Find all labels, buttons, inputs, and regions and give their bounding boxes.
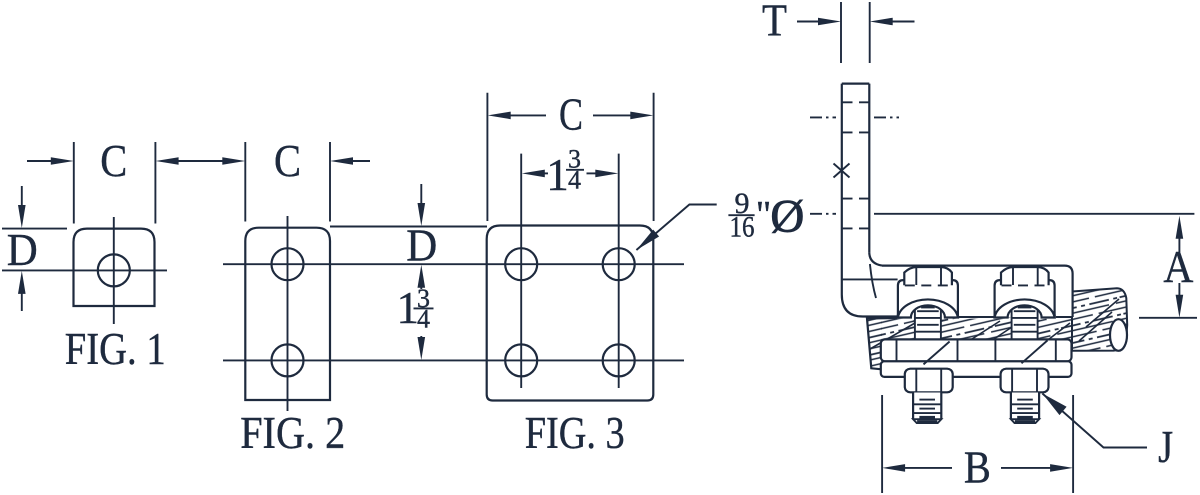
dimension C fig1 extension lines xyxy=(73,142,75,224)
dimension T extension lines xyxy=(840,2,842,63)
svg-text:FIG. 1: FIG. 1 xyxy=(65,324,166,374)
svg-text:C: C xyxy=(100,136,127,186)
J callout leader xyxy=(1042,394,1147,448)
fig3 hole bottom-right xyxy=(603,344,635,376)
saddle strap arch (clamp 2) xyxy=(994,297,1054,317)
conductor cable hatched body (left stub) xyxy=(867,318,882,369)
upper stud through cable (clamp 2) xyxy=(1012,304,1038,340)
dimension C fig3 left arrow xyxy=(488,112,511,120)
fig3 hole bottom-left xyxy=(505,344,537,376)
fig1 hole horizontal centerline / D extension xyxy=(2,269,167,271)
fig2 plate xyxy=(245,228,330,400)
upper hole row centerline across fig2 and fig3 xyxy=(223,263,684,265)
saddle block (clamp 2) xyxy=(995,280,1055,317)
fig1 hole vertical centerline xyxy=(113,217,115,324)
conductor cable hatched body (right end) xyxy=(1072,288,1127,351)
hex bolt head (clamp 1) xyxy=(904,267,952,285)
fig3 hole top-left xyxy=(505,248,537,280)
stud chamfered tip (clamp 1) xyxy=(913,419,941,423)
stud chamfered tip (clamp 2) xyxy=(1011,419,1039,423)
dimension A top arrow xyxy=(1176,216,1184,239)
dimension B extension lines xyxy=(881,395,883,493)
svg-text:D: D xyxy=(406,221,437,271)
bracket bend tangent edge xyxy=(870,264,876,298)
L-bracket leg outer edge xyxy=(841,84,843,295)
hex bolt head (clamp 2) xyxy=(1001,267,1049,285)
dimension 1-3-4 fig3 left arrow xyxy=(522,170,545,178)
diagonal slash right xyxy=(1022,340,1048,363)
svg-text:4: 4 xyxy=(568,166,581,195)
top edge extension between fig2 and fig3 xyxy=(330,226,487,228)
leg hidden hole 2 lower dashed edge xyxy=(843,227,870,229)
L-bracket leg top cap xyxy=(842,82,870,84)
dimension C fig2 right arrow xyxy=(330,157,353,165)
leg hole 1 centerline right xyxy=(874,116,899,118)
cable left end outline xyxy=(867,318,897,369)
svg-text:1: 1 xyxy=(546,150,569,200)
cable end face ellipse xyxy=(1110,319,1127,351)
bracket outer fillet and foot xyxy=(842,295,898,317)
fig3 left column centerline xyxy=(520,154,522,388)
hidden seat dashes under head (clamp 1) xyxy=(905,284,952,286)
svg-text:J: J xyxy=(1158,422,1173,472)
dimension A bottom reference line xyxy=(1139,317,1197,319)
dimension A bottom arrow xyxy=(1178,283,1180,297)
dimension 1-3-4 fig3 right arrow xyxy=(587,172,597,174)
clamp body top surface xyxy=(882,266,1073,317)
svg-text:16: 16 xyxy=(730,210,755,243)
fig3 plate xyxy=(487,226,654,401)
leg hidden hole 1 lower dashed edge xyxy=(843,131,870,133)
leg hole 1 centerline left xyxy=(810,116,836,118)
threaded stud (clamp 1) xyxy=(913,393,941,420)
keeper plate section lines xyxy=(896,339,898,361)
dimension C fig3 right arrow xyxy=(593,114,631,116)
cable strand bulge under right saddle arch xyxy=(1008,305,1040,328)
leg hidden hole 1 upper dashed edge xyxy=(843,101,870,103)
1-3-4 bottom arrow xyxy=(420,336,422,340)
dimension D fig2/fig3 upper arrow xyxy=(420,184,422,207)
upper stud through cable (clamp 1) xyxy=(915,304,941,340)
hidden seat dashes under head (clamp 2) xyxy=(1002,284,1049,286)
hole diameter callout leader xyxy=(636,205,716,251)
dimension T right arrow xyxy=(870,18,893,26)
fig3 hole top-right xyxy=(603,248,635,280)
svg-text:D: D xyxy=(7,225,38,275)
dimension D fig1 upper arrow xyxy=(21,186,23,207)
svg-text:C: C xyxy=(274,136,301,186)
hole 2 centerline extended right (A reference) xyxy=(874,213,1194,215)
svg-text:B: B xyxy=(964,443,991,493)
bracket inner fillet xyxy=(869,253,882,266)
fig2 vertical centerline xyxy=(287,216,289,411)
fig1 plate xyxy=(74,229,155,306)
cable strand bulge under left saddle arch xyxy=(912,305,944,328)
break mark x on leg xyxy=(834,164,850,178)
dimension C fig1/fig2 shared double arrow xyxy=(177,160,225,162)
fig1 hole xyxy=(98,254,130,286)
svg-text:C: C xyxy=(559,90,583,140)
svg-text:4: 4 xyxy=(417,305,430,334)
svg-text:": " xyxy=(756,194,772,236)
cable strand accent lines xyxy=(870,299,1119,351)
leg hole 2 centerline left xyxy=(810,213,836,215)
dimension D lower arrow / 1-3-4 top arrow xyxy=(418,265,426,288)
svg-text:Ø: Ø xyxy=(770,190,804,242)
dimension C fig2 extension lines xyxy=(244,142,246,222)
L-bracket body fill xyxy=(842,84,898,317)
saddle strap arch (clamp 1) xyxy=(898,297,958,317)
L-bracket horizontal bar fill xyxy=(869,266,1073,317)
svg-text:FIG. 2: FIG. 2 xyxy=(240,408,345,458)
dimension C fig1 left arrow xyxy=(27,160,52,162)
conductor cable hatched body (center) xyxy=(881,319,1072,351)
saddle block (clamp 1) xyxy=(898,280,958,317)
dimension T left arrow xyxy=(797,21,820,23)
clamp bar bottom edge segments xyxy=(958,316,994,318)
L-bracket leg inner edge xyxy=(868,84,870,253)
keeper upper plate xyxy=(881,339,1072,361)
dimension D fig1 lower arrow xyxy=(21,292,23,311)
fig2 lower hole xyxy=(272,344,304,376)
keeper lower plate xyxy=(881,361,1072,377)
lower hole row centerline across fig2 and fig3 xyxy=(223,359,684,361)
fig3 right column centerline xyxy=(618,154,620,388)
hex nut (clamp 2) xyxy=(1001,369,1049,393)
fig1 top edge extension line xyxy=(2,228,67,230)
hex nut (clamp 1) xyxy=(905,369,953,393)
diagonal slash left xyxy=(924,342,950,365)
fig2 upper hole xyxy=(272,248,304,280)
svg-text:T: T xyxy=(762,0,787,45)
dimension B left arrow xyxy=(882,464,905,472)
threaded stud (clamp 2) xyxy=(1011,393,1039,420)
leg hidden hole 2 upper dashed edge xyxy=(843,198,870,200)
dimension B right arrow xyxy=(1001,467,1052,469)
svg-text:FIG. 3: FIG. 3 xyxy=(525,408,625,458)
dimension C fig3 extension lines xyxy=(486,93,488,221)
casting step line xyxy=(842,278,898,280)
